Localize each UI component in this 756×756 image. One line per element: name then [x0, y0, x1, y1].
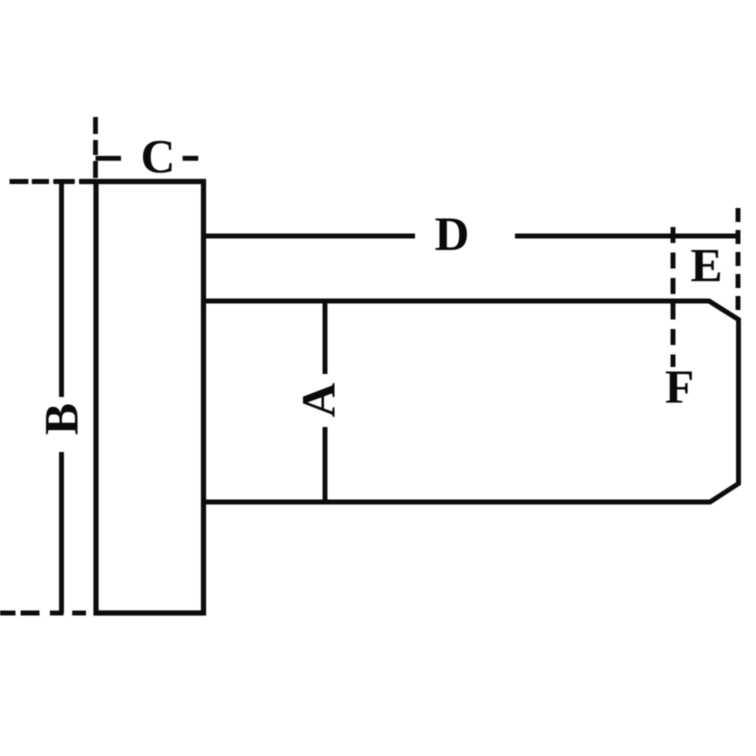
extension line for E (dashed) [736, 208, 741, 312]
svg-text:E: E [690, 240, 722, 293]
head bottom edge [94, 610, 207, 615]
head left edge [93, 179, 98, 616]
svg-text:B: B [36, 403, 89, 435]
extension line head-bottom left (dashed) [0, 611, 86, 616]
svg-text:A: A [293, 382, 346, 417]
head right edge [201, 179, 206, 616]
centerline above head for C (dashed) [93, 117, 98, 178]
svg-text:D: D [435, 208, 470, 261]
dimension line D [204, 234, 741, 239]
head top edge [79, 179, 206, 184]
extension line head-top left (dashed) [10, 179, 75, 184]
svg-text:C: C [141, 131, 176, 184]
shank outline [204, 301, 739, 502]
dimension line B [59, 182, 64, 614]
dimension line A [323, 301, 328, 502]
extension line for F (dashed) [671, 227, 676, 367]
dimension line C [96, 156, 199, 161]
svg-text:F: F [665, 361, 694, 414]
